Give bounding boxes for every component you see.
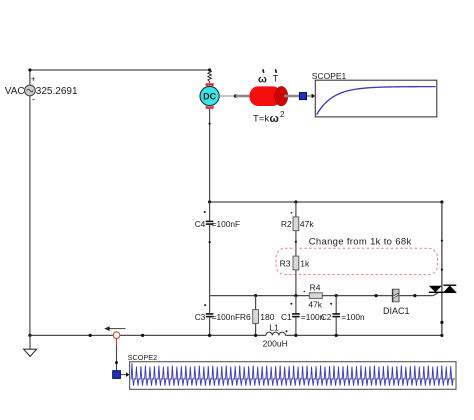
- wire DIAC to triac gate: [400, 295, 433, 297]
- brush pad top of DC machine: [206, 83, 214, 86]
- capacitor C3: [206, 314, 214, 317]
- node label dot L1: [286, 330, 288, 332]
- scope SCOPE2 frame: [130, 362, 456, 390]
- wire C1 branch upper: [295, 296, 297, 313]
- annotation dashed box: [276, 248, 438, 274]
- svg-text:T=k: T=k: [253, 114, 269, 125]
- svg-text:L1: L1: [269, 322, 279, 332]
- resistor R6: [253, 310, 259, 324]
- node bottom rail at R6: [254, 334, 257, 337]
- node bottom rail after ammeter: [141, 334, 144, 337]
- node handle between R2 R3: [295, 241, 297, 243]
- svg-text:Change from 1k to 68k: Change from 1k to 68k: [309, 236, 412, 247]
- node junction R6 top: [254, 294, 257, 297]
- triac TRIAC1: [429, 285, 457, 292]
- wire R6 upper: [255, 296, 257, 310]
- svg-text:DC: DC: [203, 91, 216, 101]
- wire R2 upper: [295, 202, 297, 217]
- svg-text:180: 180: [260, 312, 274, 322]
- svg-text:ω: ω: [258, 73, 267, 85]
- wire node B horizontal left part: [210, 295, 310, 297]
- ammeter current probe arrow: [107, 328, 126, 330]
- node top-left junction: [28, 68, 31, 71]
- connector square to SCOPE1: [300, 93, 307, 100]
- svg-text:200uH: 200uH: [263, 339, 288, 349]
- svg-text:=100n: =100n: [341, 312, 365, 322]
- wire top horizontal from VAC to DC machine: [30, 69, 210, 71]
- label omega prime: [262, 69, 265, 73]
- svg-text:R3: R3: [280, 258, 291, 268]
- connector square to SCOPE2: [113, 371, 121, 379]
- wire C1 branch lower: [295, 317, 297, 335]
- wire C3 branch lower: [209, 317, 211, 335]
- svg-text:2: 2: [280, 110, 285, 119]
- svg-text:47k: 47k: [308, 300, 322, 310]
- scope SCOPE1 frame: [315, 80, 437, 117]
- node bottom rail at C1: [294, 334, 297, 337]
- node junction before DIAC: [375, 294, 378, 297]
- node right rail below triac: [440, 321, 443, 324]
- node shaft coupling dot: [234, 94, 237, 97]
- node A right junction: [440, 200, 443, 203]
- node bottom rail at VAC: [28, 334, 31, 337]
- node small handle on DC wire: [209, 123, 211, 125]
- wire C2 branch upper: [335, 296, 337, 313]
- node top-right junction at DC: [208, 68, 211, 71]
- wire probe stem red: [116, 339, 118, 346]
- wire R3 lower: [295, 270, 297, 296]
- node handle right rail mid: [441, 269, 443, 271]
- axis SCOPE2: [130, 378, 455, 380]
- svg-text:T: T: [273, 74, 279, 84]
- shaft thick left: [236, 95, 250, 98]
- capacitor C4: [206, 221, 214, 224]
- node junction R3-C1: [294, 294, 297, 297]
- svg-text:SCOPE1: SCOPE1: [312, 71, 347, 81]
- wire left rail vertical: [29, 70, 31, 335]
- node bottom rail at C2: [335, 334, 338, 337]
- resistor R4: [309, 293, 322, 299]
- svg-text:R4: R4: [310, 282, 321, 292]
- label T prime: [275, 69, 278, 73]
- node A mid junction at R2: [294, 200, 297, 203]
- shaft thick right: [284, 95, 300, 98]
- svg-text:47k: 47k: [300, 219, 314, 229]
- svg-text:R2: R2: [281, 219, 292, 229]
- wire node B to DIAC: [322, 295, 392, 297]
- wire R6 lower: [255, 323, 257, 335]
- wire probe stem to connector: [116, 346, 118, 371]
- load cylinder end cap: [275, 86, 288, 106]
- machine DC1 body: [200, 86, 219, 105]
- wire bottom rail right: [285, 334, 442, 336]
- source VAC V1: [25, 74, 36, 104]
- inductor field winding coil above DC machine: [208, 70, 212, 83]
- svg-text:C4: C4: [195, 219, 206, 229]
- wire C3 branch upper: [209, 296, 211, 313]
- resistor R2: [293, 217, 299, 231]
- svg-text:1k: 1k: [300, 258, 310, 268]
- wire gate bend: [433, 292, 442, 295]
- wire node A horizontal: [210, 201, 442, 203]
- svg-text:-: -: [32, 94, 35, 104]
- diac DIAC1: [392, 289, 399, 302]
- node label dot C1: [290, 303, 292, 305]
- brush pad bottom of DC machine: [206, 106, 214, 109]
- ground symbol: [24, 335, 37, 356]
- node label dot R4: [303, 291, 305, 293]
- svg-text:VAC: VAC: [5, 86, 25, 97]
- wire C2 branch lower: [335, 317, 337, 335]
- inductor L1: [266, 332, 286, 335]
- svg-text:325.2691: 325.2691: [36, 86, 78, 97]
- capacitor C1: [292, 314, 300, 317]
- svg-text:C2: C2: [321, 312, 332, 322]
- svg-text:=100nF: =100nF: [212, 219, 240, 229]
- svg-text:ω: ω: [270, 113, 279, 125]
- wire right rail: [441, 202, 443, 335]
- node handle right rail upper: [441, 240, 443, 242]
- wire arrow into SCOPE2: [121, 374, 127, 376]
- trace SCOPE2 waveform: [131, 363, 454, 386]
- node bottom rail at C3: [208, 334, 211, 337]
- capacitor C2: [332, 314, 340, 317]
- node handle below C4: [209, 241, 211, 243]
- wire C4 branch upper: [209, 202, 211, 221]
- wire bottom rail left: [30, 334, 266, 336]
- wire arrow into SCOPE1: [307, 95, 312, 97]
- load cylinder body: [249, 86, 281, 106]
- svg-text:C3: C3: [195, 312, 206, 322]
- node label dot C3: [204, 304, 206, 306]
- node label dot R2: [291, 212, 293, 214]
- node junction after DIAC: [413, 294, 416, 297]
- svg-text:=100nF: =100nF: [212, 312, 240, 322]
- node label dot C4: [204, 211, 206, 213]
- node junction C2 top: [335, 294, 338, 297]
- node A left junction: [208, 200, 211, 203]
- node bottom rail right corner: [440, 334, 443, 337]
- wire DC machine to node A: [209, 109, 211, 202]
- trace SCOPE1 exponential curve: [317, 87, 436, 115]
- svg-text:DIAC1: DIAC1: [383, 306, 410, 316]
- svg-text:SCOPE2: SCOPE2: [128, 353, 158, 362]
- wire C4 branch lower: [209, 225, 211, 296]
- resistor R3: [293, 256, 299, 270]
- svg-text:R6: R6: [240, 312, 251, 322]
- svg-text:+: +: [31, 74, 36, 83]
- node bottom rail before ammeter: [89, 334, 92, 337]
- wire R2 to R3: [295, 231, 297, 256]
- svg-text:C1: C1: [281, 312, 292, 322]
- shaft thin left: [219, 95, 235, 97]
- node probe stem junction: [115, 361, 118, 364]
- ammeter current probe circle: [113, 332, 120, 339]
- node label dot C2: [330, 303, 332, 305]
